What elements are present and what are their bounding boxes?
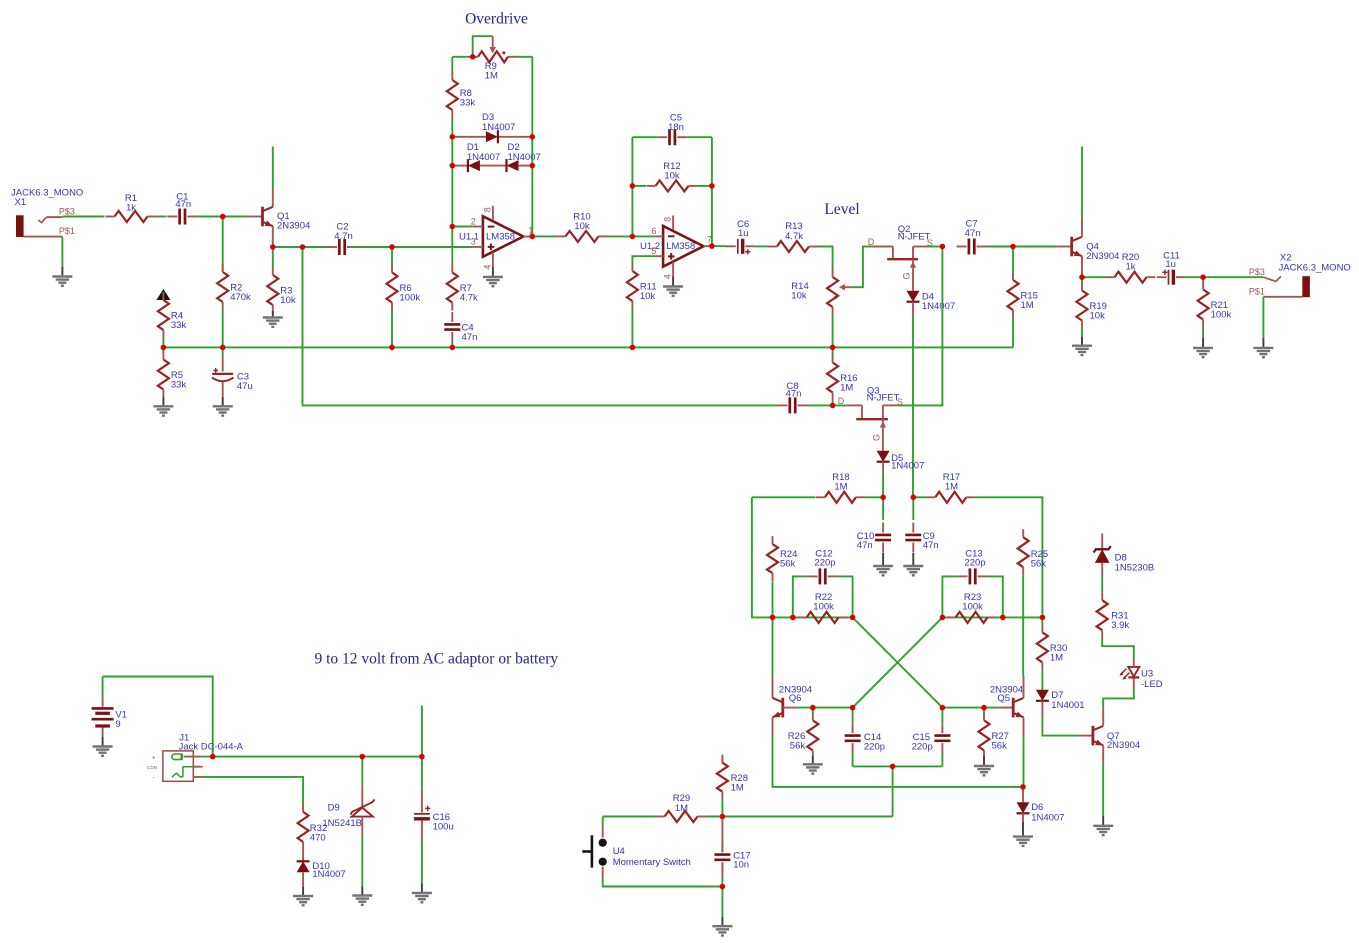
junction <box>450 345 456 351</box>
svg-text:1N4007: 1N4007 <box>922 301 955 312</box>
ground (C9) <box>912 553 914 566</box>
svg-text:1M: 1M <box>485 71 498 82</box>
svg-text:Q6: Q6 <box>789 693 802 704</box>
wire left drop <box>752 497 853 617</box>
wire feedback left vertical <box>631 137 633 236</box>
svg-text:1N4001: 1N4001 <box>1051 700 1084 711</box>
svg-text:4: 4 <box>663 274 673 279</box>
svg-text:9: 9 <box>115 719 120 730</box>
svg-text:-LED: -LED <box>1141 679 1163 690</box>
svg-text:Level: Level <box>824 201 859 218</box>
svg-text:47n: 47n <box>923 540 939 551</box>
resistor R11 10k <box>627 263 657 309</box>
capacitor C8 47n <box>778 381 808 413</box>
resistor R6 100k <box>387 265 421 311</box>
junction <box>880 495 886 501</box>
junction <box>419 754 425 760</box>
junction <box>270 244 276 250</box>
resistor R8 33k <box>447 72 476 118</box>
wire R17 to right line <box>975 497 1042 617</box>
wire J1 minus to R32 <box>203 777 304 807</box>
wire input line <box>62 216 104 218</box>
wire Q4 collector stub <box>1081 147 1083 219</box>
ground (C16) <box>421 884 423 894</box>
junction <box>790 615 796 621</box>
ground (U1B pin4) <box>672 276 674 286</box>
connector J1 Jack DC-044-A <box>147 732 244 781</box>
ground (V1) <box>102 737 104 747</box>
wire R13 to R14 <box>818 247 833 270</box>
junction <box>630 345 636 351</box>
ground (Q7) <box>1102 816 1104 826</box>
svg-text:D: D <box>868 237 875 247</box>
svg-text:5: 5 <box>651 246 656 256</box>
transistor Q6 2N3904 <box>773 617 813 737</box>
wire R6 to rail <box>391 311 393 348</box>
wire C6 to R13 <box>754 245 768 247</box>
junction <box>220 345 226 351</box>
capacitor C17 10n <box>714 817 750 887</box>
junction <box>530 134 536 140</box>
wire Q7 emitter to ground <box>1102 764 1104 816</box>
junction <box>1010 244 1016 250</box>
wire bias rail <box>163 346 1013 348</box>
resistor R2 470k <box>217 264 251 310</box>
resistor R1 1k <box>106 193 157 222</box>
svg-text:8: 8 <box>483 207 493 212</box>
op-amp U1B LM358 <box>640 216 712 280</box>
svg-text:Momentary Switch: Momentary Switch <box>613 857 691 868</box>
svg-text:U1.2: U1.2 <box>640 241 660 252</box>
junction <box>210 754 216 760</box>
transistor Q1 2N3904 <box>248 188 311 247</box>
svg-text:10n: 10n <box>733 860 749 871</box>
transistor Q5 2N3904 <box>990 676 1024 737</box>
connector X2 JACK6.3_MONO <box>1249 253 1351 298</box>
svg-text:1u: 1u <box>738 228 749 239</box>
capacitor C5 18n <box>657 112 687 145</box>
junction <box>530 234 536 240</box>
ground (R27) <box>983 756 985 766</box>
svg-text:470k: 470k <box>230 292 251 303</box>
svg-text:100u: 100u <box>433 822 454 833</box>
svg-text:+: + <box>152 756 156 762</box>
svg-text:2: 2 <box>471 217 476 227</box>
wire Q2 source <box>928 246 942 248</box>
svg-text:Q5: Q5 <box>997 693 1010 704</box>
wire Q4 emitter to R20 <box>1082 276 1106 278</box>
wire LED to R31 <box>1102 638 1134 660</box>
resistor R32 470 <box>298 804 328 850</box>
diode D7 1N4001 <box>1036 671 1085 717</box>
wire D9 to ground <box>361 837 363 887</box>
svg-text:1N5230B: 1N5230B <box>1115 563 1155 574</box>
junction <box>630 183 636 189</box>
wire C4 to rail <box>451 342 453 347</box>
wire Q7 collector to LED <box>1103 689 1134 709</box>
svg-text:P$1: P$1 <box>59 226 75 236</box>
resistor R3 10k <box>267 267 296 313</box>
wire C7 to Q4 base <box>987 246 1057 248</box>
resistor R10 10k <box>557 211 608 242</box>
svg-text:56k: 56k <box>1031 558 1047 569</box>
svg-text:10k: 10k <box>1090 311 1106 322</box>
svg-text:S: S <box>897 397 903 407</box>
junction <box>630 234 636 240</box>
svg-text:4.7k: 4.7k <box>460 293 478 304</box>
ground (C3) <box>222 397 224 406</box>
wire Q2 gate to D4 <box>902 259 917 291</box>
junction <box>830 345 836 351</box>
svg-text:1k: 1k <box>1125 262 1135 273</box>
wire D4 down to C9 node <box>912 315 914 497</box>
svg-text:-: - <box>153 775 155 781</box>
capacitor C16 100u <box>414 757 454 840</box>
svg-text:1M: 1M <box>1021 300 1034 311</box>
resistor R30 1M <box>1037 617 1067 670</box>
capacitor C4 47n <box>444 312 477 343</box>
junction <box>709 183 715 189</box>
resistor R12 10k <box>632 161 712 192</box>
svg-text:1M: 1M <box>840 383 853 394</box>
ground (U1A pin4) <box>492 267 494 277</box>
junction <box>940 244 946 250</box>
svg-text:1M: 1M <box>1050 653 1063 664</box>
junction <box>450 163 456 169</box>
junction <box>450 134 456 140</box>
resistor R5 33k <box>158 347 187 397</box>
wire Q2 source down to Q3 source <box>898 247 943 406</box>
wire D5 to C10 node <box>882 473 884 497</box>
capacitor C10 47n <box>857 497 891 552</box>
svg-text:P$3: P$3 <box>1249 267 1265 277</box>
connector X1 JACK6.3_MONO <box>11 187 83 237</box>
switch U4 Momentary <box>582 817 691 878</box>
capacitor C2 4.7n <box>327 221 357 255</box>
svg-text:2N3904: 2N3904 <box>277 221 310 232</box>
svg-text:1N4007: 1N4007 <box>467 152 500 163</box>
svg-text:47n: 47n <box>857 540 873 551</box>
svg-text:G: G <box>902 272 912 279</box>
svg-text:220p: 220p <box>912 742 933 753</box>
wire right line <box>942 616 1042 618</box>
wire cluster right vertical <box>531 57 533 237</box>
transistor Q2 N-JFET <box>868 224 933 259</box>
wire cross coupling A <box>853 617 943 707</box>
wire R15 to rail <box>1012 318 1014 347</box>
ground (output jack sleeve) <box>1253 297 1273 357</box>
wire pin2 node <box>452 226 472 228</box>
wire cross coupling B <box>853 617 943 707</box>
wire D7 to Q7 base <box>1042 717 1078 736</box>
power arrow (Vref) <box>156 289 170 300</box>
svg-text:1N4007: 1N4007 <box>1031 813 1064 824</box>
junction <box>940 705 946 711</box>
svg-text:470: 470 <box>310 832 326 843</box>
svg-text:33k: 33k <box>460 98 476 109</box>
svg-text:47n: 47n <box>786 388 802 399</box>
svg-text:6: 6 <box>651 226 656 236</box>
svg-text:7: 7 <box>707 234 712 244</box>
svg-text:D9: D9 <box>328 802 340 813</box>
svg-text:3.9k: 3.9k <box>1111 620 1129 631</box>
wire R25 to Q5 collector <box>1022 575 1024 676</box>
resistor R16 1M <box>827 347 857 405</box>
junction <box>389 244 395 250</box>
wire R6 top <box>391 247 393 265</box>
wire to switch line <box>892 766 894 816</box>
wire Q3 gate to D5 <box>872 419 887 451</box>
resistor R21 100k <box>1198 277 1232 327</box>
svg-text:1k: 1k <box>126 203 136 214</box>
svg-text:220p: 220p <box>814 557 835 568</box>
wire Q6 base <box>798 707 853 709</box>
capacitor C13 220p <box>942 549 1002 618</box>
wire R4 to rail <box>162 338 164 347</box>
ground (R26) <box>812 756 814 764</box>
svg-text:1M: 1M <box>675 803 688 814</box>
svg-text:2N3904: 2N3904 <box>1086 251 1119 262</box>
junction <box>1200 274 1206 280</box>
wire pin5 to R11 <box>632 256 655 263</box>
svg-text:D: D <box>838 396 845 406</box>
resistor R24 56k <box>767 536 797 617</box>
wire <box>157 216 167 218</box>
wire emitter line <box>773 737 1024 787</box>
junction <box>981 705 987 711</box>
wire feedback top <box>632 136 657 138</box>
junction <box>720 884 726 890</box>
junction <box>1000 615 1006 621</box>
junction <box>720 814 726 820</box>
svg-text:1M: 1M <box>731 782 744 793</box>
junction <box>1020 784 1026 790</box>
diode D2 1N4007 <box>507 142 541 172</box>
svg-text:47n: 47n <box>175 199 191 210</box>
svg-text:33k: 33k <box>171 320 187 331</box>
svg-text:10k: 10k <box>280 295 296 306</box>
wire Q5 emitter <box>1023 737 1025 787</box>
resistor R13 4.7k <box>768 221 818 252</box>
svg-text:4.7k: 4.7k <box>785 231 803 242</box>
junction <box>1079 274 1085 280</box>
LED U3 <box>1119 660 1162 690</box>
wire emitter line <box>273 246 333 248</box>
ground (input jack sleeve) <box>52 237 72 286</box>
capacitor C14 220p <box>845 708 885 767</box>
wire R2 to rail <box>222 310 224 347</box>
junction <box>300 244 306 250</box>
resistor R23 100k <box>947 592 997 623</box>
svg-text:220p: 220p <box>964 557 985 568</box>
svg-text:47n: 47n <box>965 228 981 239</box>
wire Q1 emitter to C8 <box>303 247 778 405</box>
svg-text:Overdrive: Overdrive <box>465 11 528 28</box>
wire switch bottom <box>603 878 723 887</box>
ground (R3) <box>272 311 274 318</box>
wire R15 top <box>1012 247 1014 273</box>
junction <box>770 615 776 621</box>
svg-text:P$1: P$1 <box>1249 286 1265 296</box>
junction <box>940 615 946 621</box>
junction <box>360 754 366 760</box>
svg-text:10k: 10k <box>574 221 590 232</box>
resistor R28 1M <box>717 755 748 817</box>
wire R10 to pin6 <box>608 235 656 237</box>
battery V1 9V <box>92 677 213 757</box>
resistor R31 3.9k <box>1097 592 1130 638</box>
resistor R20 1k <box>1106 252 1156 283</box>
ground (R21) <box>1193 328 1213 358</box>
resistor R7 4.7k <box>447 265 478 311</box>
svg-text:1M: 1M <box>834 482 847 493</box>
resistor R15 1M <box>1008 272 1038 318</box>
wire clipping cluster left vertical <box>451 57 453 72</box>
junction <box>161 345 167 351</box>
diode D1 1N4007 <box>452 142 506 172</box>
resistor R4 33k <box>158 292 187 338</box>
svg-text:33k: 33k <box>171 380 187 391</box>
svg-text:G: G <box>872 434 882 441</box>
ground (D9) <box>361 886 363 895</box>
wire C17 to ground <box>721 887 723 918</box>
svg-text:1M: 1M <box>945 482 958 493</box>
svg-text:56k: 56k <box>790 740 806 751</box>
svg-text:8: 8 <box>663 217 673 222</box>
resistor R19 10k <box>1077 277 1107 328</box>
diode D6 1N4007 <box>1017 787 1065 824</box>
wire power rail <box>203 756 422 758</box>
svg-text:100k: 100k <box>1211 310 1232 321</box>
svg-text:1N4007: 1N4007 <box>891 461 924 472</box>
ground (C17) <box>721 917 723 926</box>
svg-text:10k: 10k <box>791 291 807 302</box>
wire R11 to rail <box>631 309 633 347</box>
wire R18 left <box>752 496 816 498</box>
svg-text:220p: 220p <box>864 742 885 753</box>
diode D3 1N4007 <box>452 112 532 143</box>
wire C14-C15 bottom <box>853 765 943 767</box>
svg-text:U1.1: U1.1 <box>459 232 479 243</box>
svg-text:U4: U4 <box>613 846 625 857</box>
svg-text:4: 4 <box>482 265 492 270</box>
svg-text:9 to 12 volt from AC adaptor o: 9 to 12 volt from AC adaptor or battery <box>315 651 559 668</box>
svg-text:D6: D6 <box>1031 802 1043 813</box>
resistor R18 1M <box>816 472 865 503</box>
svg-text:47n: 47n <box>462 332 478 343</box>
svg-text:1u: 1u <box>1165 259 1176 270</box>
svg-text:N-JFET: N-JFET <box>867 393 900 404</box>
resistor R22 100k <box>798 592 848 623</box>
junction <box>810 705 816 711</box>
svg-text:100k: 100k <box>813 602 834 613</box>
svg-text:Jack DC-044-A: Jack DC-044-A <box>179 741 244 752</box>
capacitor C9 47n <box>905 497 938 552</box>
wire +9V stub <box>421 706 423 757</box>
resistor R17 1M <box>926 472 975 503</box>
ground (R5) <box>162 398 164 407</box>
diode D10 1N4007 <box>297 850 346 887</box>
ground (C10) <box>882 553 884 566</box>
junction <box>830 403 836 409</box>
svg-text:100k: 100k <box>962 602 983 613</box>
svg-text:2N3904: 2N3904 <box>1107 740 1140 751</box>
svg-text:X1: X1 <box>15 197 27 208</box>
svg-text:56k: 56k <box>992 740 1008 751</box>
svg-text:10k: 10k <box>640 291 656 302</box>
svg-text:JACK6.3_MONO: JACK6.3_MONO <box>1279 262 1351 273</box>
svg-text:LM358: LM358 <box>666 241 695 252</box>
wire R29 to C17 node <box>707 816 893 818</box>
wire U1B out <box>712 245 727 247</box>
svg-text:P$3: P$3 <box>59 206 75 216</box>
wire C11 to output <box>1185 276 1263 278</box>
junction <box>220 214 226 220</box>
capacitor C12 220p <box>793 549 853 618</box>
wire feedback right vertical <box>711 137 713 246</box>
wire R18 to C10 node <box>865 496 883 498</box>
wire to R2 <box>222 217 224 273</box>
diode D4 1N4007 <box>907 291 956 315</box>
resistor R26 56k <box>788 708 819 759</box>
wire output to R10 <box>532 235 556 237</box>
svg-text:N-JFET: N-JFET <box>898 231 931 242</box>
junction <box>470 54 476 60</box>
zener diode D8 1N5230B <box>1094 534 1155 578</box>
junction <box>450 224 456 230</box>
svg-text:1N4007: 1N4007 <box>482 122 515 133</box>
svg-text:CON: CON <box>147 765 157 770</box>
junction <box>850 705 856 711</box>
svg-text:1N4007: 1N4007 <box>508 152 541 163</box>
junction <box>389 345 395 351</box>
transistor Q3 N-JFET <box>838 385 903 419</box>
capacitor C7 47n <box>957 218 987 254</box>
capacitor C11 1u <box>1157 250 1185 284</box>
capacitor C15 220p <box>912 708 951 767</box>
junction <box>890 764 896 770</box>
wire to R3 <box>272 247 274 267</box>
svg-text:47u: 47u <box>237 381 253 392</box>
junction <box>1040 615 1046 621</box>
capacitor C1 47n <box>167 191 197 224</box>
ground (D10) <box>302 887 304 896</box>
op-amp U1A LM358 <box>459 206 533 270</box>
svg-text:18n: 18n <box>668 122 684 133</box>
wire C16 to ground <box>421 840 423 884</box>
wire R29 line <box>603 816 656 818</box>
svg-text:LM358: LM358 <box>486 232 515 243</box>
wire C9 to R17 <box>913 496 926 498</box>
diode D5 1N4007 <box>877 451 925 473</box>
wire Q1 collector stub <box>272 147 274 189</box>
svg-text:56k: 56k <box>780 558 796 569</box>
potentiometer R9 1M <box>452 36 532 81</box>
ground (D6) <box>1022 822 1024 837</box>
wire C2 to opamp pin3 <box>351 246 472 248</box>
zener diode D9 1N5241B <box>322 757 374 837</box>
svg-text:3: 3 <box>471 237 476 247</box>
wire Q5 base <box>942 707 998 709</box>
svg-text:4.7n: 4.7n <box>334 231 353 242</box>
transistor Q7 2N3904 <box>1078 708 1140 764</box>
resistor R29 1M <box>656 793 707 822</box>
svg-text:10k: 10k <box>664 171 680 182</box>
resistor R25 56k <box>1018 529 1048 575</box>
resistor R27 56k <box>979 708 1009 759</box>
junction <box>850 615 856 621</box>
wire R31 to D8 <box>1101 577 1103 592</box>
